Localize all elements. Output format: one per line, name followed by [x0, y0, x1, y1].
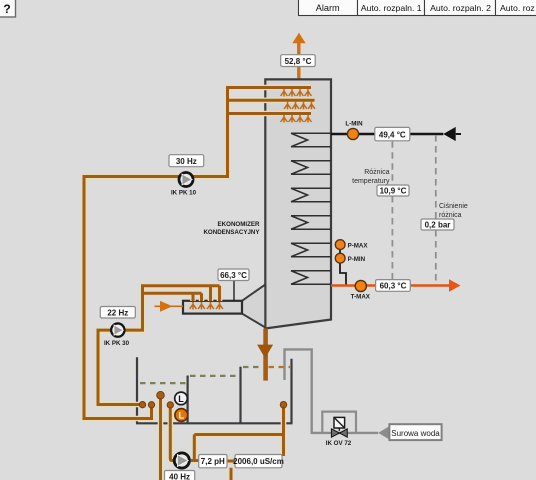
sensor L orange: [175, 409, 188, 422]
junction dot 4: [167, 402, 173, 408]
label 30 Hz: [169, 155, 204, 167]
spray nozzles row 1: [281, 89, 312, 97]
label 2006,0 uS/cm: [233, 455, 284, 468]
help button: [0, 0, 16, 17]
tank divider 1: [187, 376, 189, 424]
heat exchanger chevron 6: [291, 271, 331, 285]
label 0,2 bar: [421, 219, 454, 230]
level dashes compartment 2: [190, 375, 239, 377]
sensor L-MIN: [347, 128, 358, 139]
orange pipe network core: [84, 88, 315, 480]
sensor P-MAX: [335, 240, 345, 250]
svg-text:52,8 °C: 52,8 °C: [285, 57, 312, 66]
top outlet pipe: [297, 43, 300, 79]
svg-text:temperatury: temperatury: [352, 178, 390, 185]
hot water outlet pipe: [331, 284, 450, 287]
level dashes compartment 1: [140, 382, 186, 384]
svg-text:Auto. roz: Auto. roz: [500, 3, 535, 13]
svg-text:Różnica: Różnica: [364, 169, 389, 176]
svg-text:Surowa woda: Surowa woda: [391, 429, 440, 438]
heat exchanger chevron 4: [291, 216, 331, 230]
label 40 Hz (cut): [165, 471, 195, 480]
flue gas inlet arrow: [443, 127, 455, 141]
label 7,2 pH: [199, 455, 227, 468]
economizer tower body: [265, 79, 331, 328]
svg-text:?: ?: [3, 2, 10, 16]
button Auto. rozpaln. 1: [358, 0, 425, 16]
svg-text:L: L: [179, 410, 185, 420]
svg-text:7,2 pH: 7,2 pH: [201, 457, 225, 466]
junction dot 3: [157, 391, 165, 399]
dashed measuring line A: [391, 141, 393, 285]
tank bottom: [136, 422, 293, 424]
spray duct: [183, 301, 242, 314]
raw water line: [285, 349, 379, 433]
button Auto. roz (cut): [496, 0, 536, 16]
condensate tank left wall: [136, 357, 138, 423]
P-MAX / P-MIN sensor line: [340, 245, 346, 285]
pump IK PK 30: [104, 322, 130, 347]
svg-text:L-MIN: L-MIN: [345, 121, 363, 128]
level dashes compartment 3: [243, 366, 263, 368]
dashed measuring line B: [435, 135, 437, 285]
junction dot 2: [148, 402, 154, 408]
label 52,8 C: [281, 55, 316, 67]
top outlet arrow: [292, 33, 305, 44]
svg-text:IK OV 72: IK OV 72: [326, 440, 352, 447]
svg-text:40 Hz: 40 Hz: [169, 473, 190, 480]
label 60,3 C: [376, 280, 411, 292]
duct inlet arrow line: [155, 305, 184, 307]
svg-text:22 Hz: 22 Hz: [107, 309, 128, 318]
outlet arrow: [449, 279, 461, 291]
svg-text:Alarm: Alarm: [316, 3, 340, 13]
svg-text:T-MAX: T-MAX: [351, 294, 371, 301]
sensor P-MIN: [335, 253, 345, 263]
pump IK PK 10: [171, 171, 197, 196]
junction dot right: [280, 401, 287, 408]
svg-text:różnica: różnica: [439, 212, 462, 219]
tank divider 2: [239, 367, 241, 424]
button Auto. rozpaln. 2: [425, 0, 496, 16]
svg-text:EKONOMIZER: EKONOMIZER: [218, 221, 260, 228]
label 10,9 C: [377, 185, 409, 196]
valve bypass frame: [322, 412, 356, 432]
svg-text:66,3 °C: 66,3 °C: [220, 271, 247, 280]
sample pump: [173, 452, 191, 470]
flue gas inlet line: [331, 133, 443, 135]
label Surowa woda: [389, 424, 441, 440]
svg-text:P-MAX: P-MAX: [348, 242, 369, 249]
valve IK OV 72: [326, 417, 352, 446]
svg-text:30 Hz: 30 Hz: [176, 157, 197, 166]
duct spray nozzles: [190, 302, 223, 310]
svg-text:Auto. rozpaln. 1: Auto. rozpaln. 1: [361, 3, 422, 13]
svg-text:2006,0 uS/cm: 2006,0 uS/cm: [233, 457, 284, 466]
label 49,4 C: [375, 127, 410, 140]
heat exchanger chevron 2: [291, 161, 331, 175]
duct inlet arrow: [160, 301, 173, 312]
svg-text:0,2 bar: 0,2 bar: [425, 221, 451, 230]
spray nozzles row 3: [281, 115, 312, 123]
svg-text:49,4 °C: 49,4 °C: [379, 130, 406, 139]
heat exchanger chevron 1: [291, 133, 331, 147]
tank right wall: [290, 359, 292, 424]
label 66,3 C: [218, 269, 249, 301]
svg-text:Ciśnienie: Ciśnienie: [439, 203, 468, 210]
svg-text:L: L: [178, 394, 184, 404]
drain pipe from hopper: [263, 329, 268, 381]
svg-text:P-MIN: P-MIN: [348, 256, 366, 263]
sensor L white: [175, 392, 188, 405]
heat exchanger chevron 3: [291, 188, 331, 202]
drain arrow: [257, 345, 273, 359]
raw water arrow: [378, 426, 389, 440]
junction dot 1: [139, 402, 145, 408]
svg-text:KONDENSACYJNY: KONDENSACYJNY: [203, 229, 260, 236]
orange pipe network highlight: [84, 88, 315, 480]
sensor T-MAX: [355, 280, 366, 291]
svg-text:10,9 °C: 10,9 °C: [380, 187, 407, 196]
svg-text:IK PK 10: IK PK 10: [171, 190, 197, 197]
heat exchanger chevron 5: [291, 243, 331, 257]
svg-text:IK PK 30: IK PK 30: [104, 340, 130, 347]
svg-text:60,3 °C: 60,3 °C: [380, 282, 407, 291]
label 22 Hz: [100, 307, 135, 319]
spray nozzles row 2: [284, 102, 315, 110]
inlet duct taper: [242, 285, 265, 328]
button Alarm: [299, 0, 358, 16]
svg-text:Auto. rozpaln. 2: Auto. rozpaln. 2: [430, 3, 491, 13]
